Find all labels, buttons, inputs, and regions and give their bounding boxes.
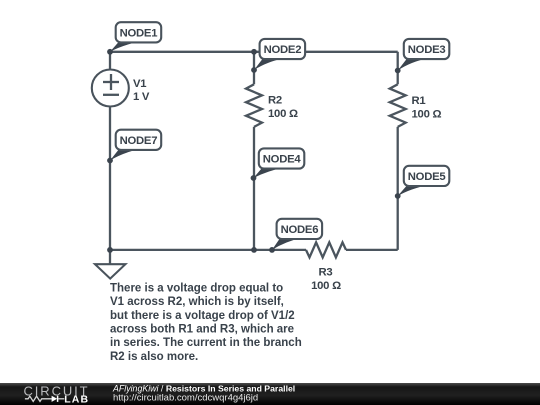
resistor R1 [390, 84, 442, 127]
svg-text:across both R1 and R3, which a: across both R1 and R3, which are [110, 324, 294, 336]
svg-text:but there is a voltage drop of: but there is a voltage drop of V1/2 [110, 310, 295, 322]
node NODE2 [251, 39, 305, 73]
voltage source V1 [92, 70, 150, 107]
node NODE6 [269, 219, 322, 253]
node NODE1 [107, 22, 161, 54]
svg-text:NODE2: NODE2 [264, 44, 302, 56]
node NODE4 [251, 148, 305, 181]
svg-text:NODE5: NODE5 [408, 171, 446, 183]
svg-text:NODE6: NODE6 [281, 224, 319, 236]
svg-text:100 Ω: 100 Ω [311, 280, 341, 292]
node NODE5 [395, 166, 449, 199]
svg-text:There is a voltage drop equal: There is a voltage drop equal to [110, 282, 283, 294]
wire middle vertical upper (top wire to R2) [253, 52, 255, 85]
node NODE7 [107, 130, 161, 164]
svg-text:NODE7: NODE7 [120, 135, 158, 147]
svg-text:100 Ω: 100 Ω [412, 109, 442, 121]
svg-text:LAB: LAB [64, 394, 89, 405]
junction dot at bottom wire / ground [107, 247, 113, 253]
resistor R3 [306, 242, 346, 292]
ground [95, 264, 125, 278]
wire bottom horizontal left (ground junction to R3) [110, 249, 306, 251]
wire left vertical upper (NODE1 to V1 top) [109, 52, 111, 70]
svg-text:R3: R3 [319, 267, 333, 279]
svg-text:http://circuitlab.com/cdcwqr4g: http://circuitlab.com/cdcwqr4g4j6jd [113, 393, 258, 404]
wire top horizontal from NODE1 to right corner [110, 51, 398, 53]
node NODE3 [395, 39, 449, 74]
svg-text:NODE4: NODE4 [263, 154, 302, 166]
svg-text:R2 is also more.: R2 is also more. [110, 351, 198, 363]
wire middle vertical lower (R2 to bottom wire) [253, 127, 255, 250]
junction dot at bottom wire / R2 branch [251, 247, 257, 253]
junction dot at top wire / R2 branch [251, 49, 257, 55]
footer credit text [112, 383, 295, 403]
CircuitLab logo [24, 383, 90, 405]
svg-text:R1: R1 [412, 95, 426, 107]
wire right vertical lower (R1 to bottom corner) [397, 127, 399, 250]
svg-text:1 V: 1 V [133, 91, 150, 103]
footer bar [0, 383, 540, 405]
svg-text:V1 across R2, which is by itse: V1 across R2, which is by itself, [110, 296, 284, 308]
svg-text:NODE3: NODE3 [408, 44, 446, 56]
annotation text block [110, 282, 302, 363]
svg-text:V1: V1 [133, 78, 146, 90]
resistor R2 [246, 84, 298, 127]
svg-text:NODE1: NODE1 [120, 28, 158, 40]
svg-text:100 Ω: 100 Ω [268, 108, 298, 120]
wire left vertical lower (V1 bottom to ground) [109, 107, 111, 264]
wire right vertical upper (corner to R1) [397, 52, 399, 85]
svg-text:in series. The current in the: in series. The current in the branch [110, 337, 302, 349]
wire bottom horizontal right (R3 to right corner) [346, 249, 398, 251]
svg-text:R2: R2 [268, 94, 282, 106]
